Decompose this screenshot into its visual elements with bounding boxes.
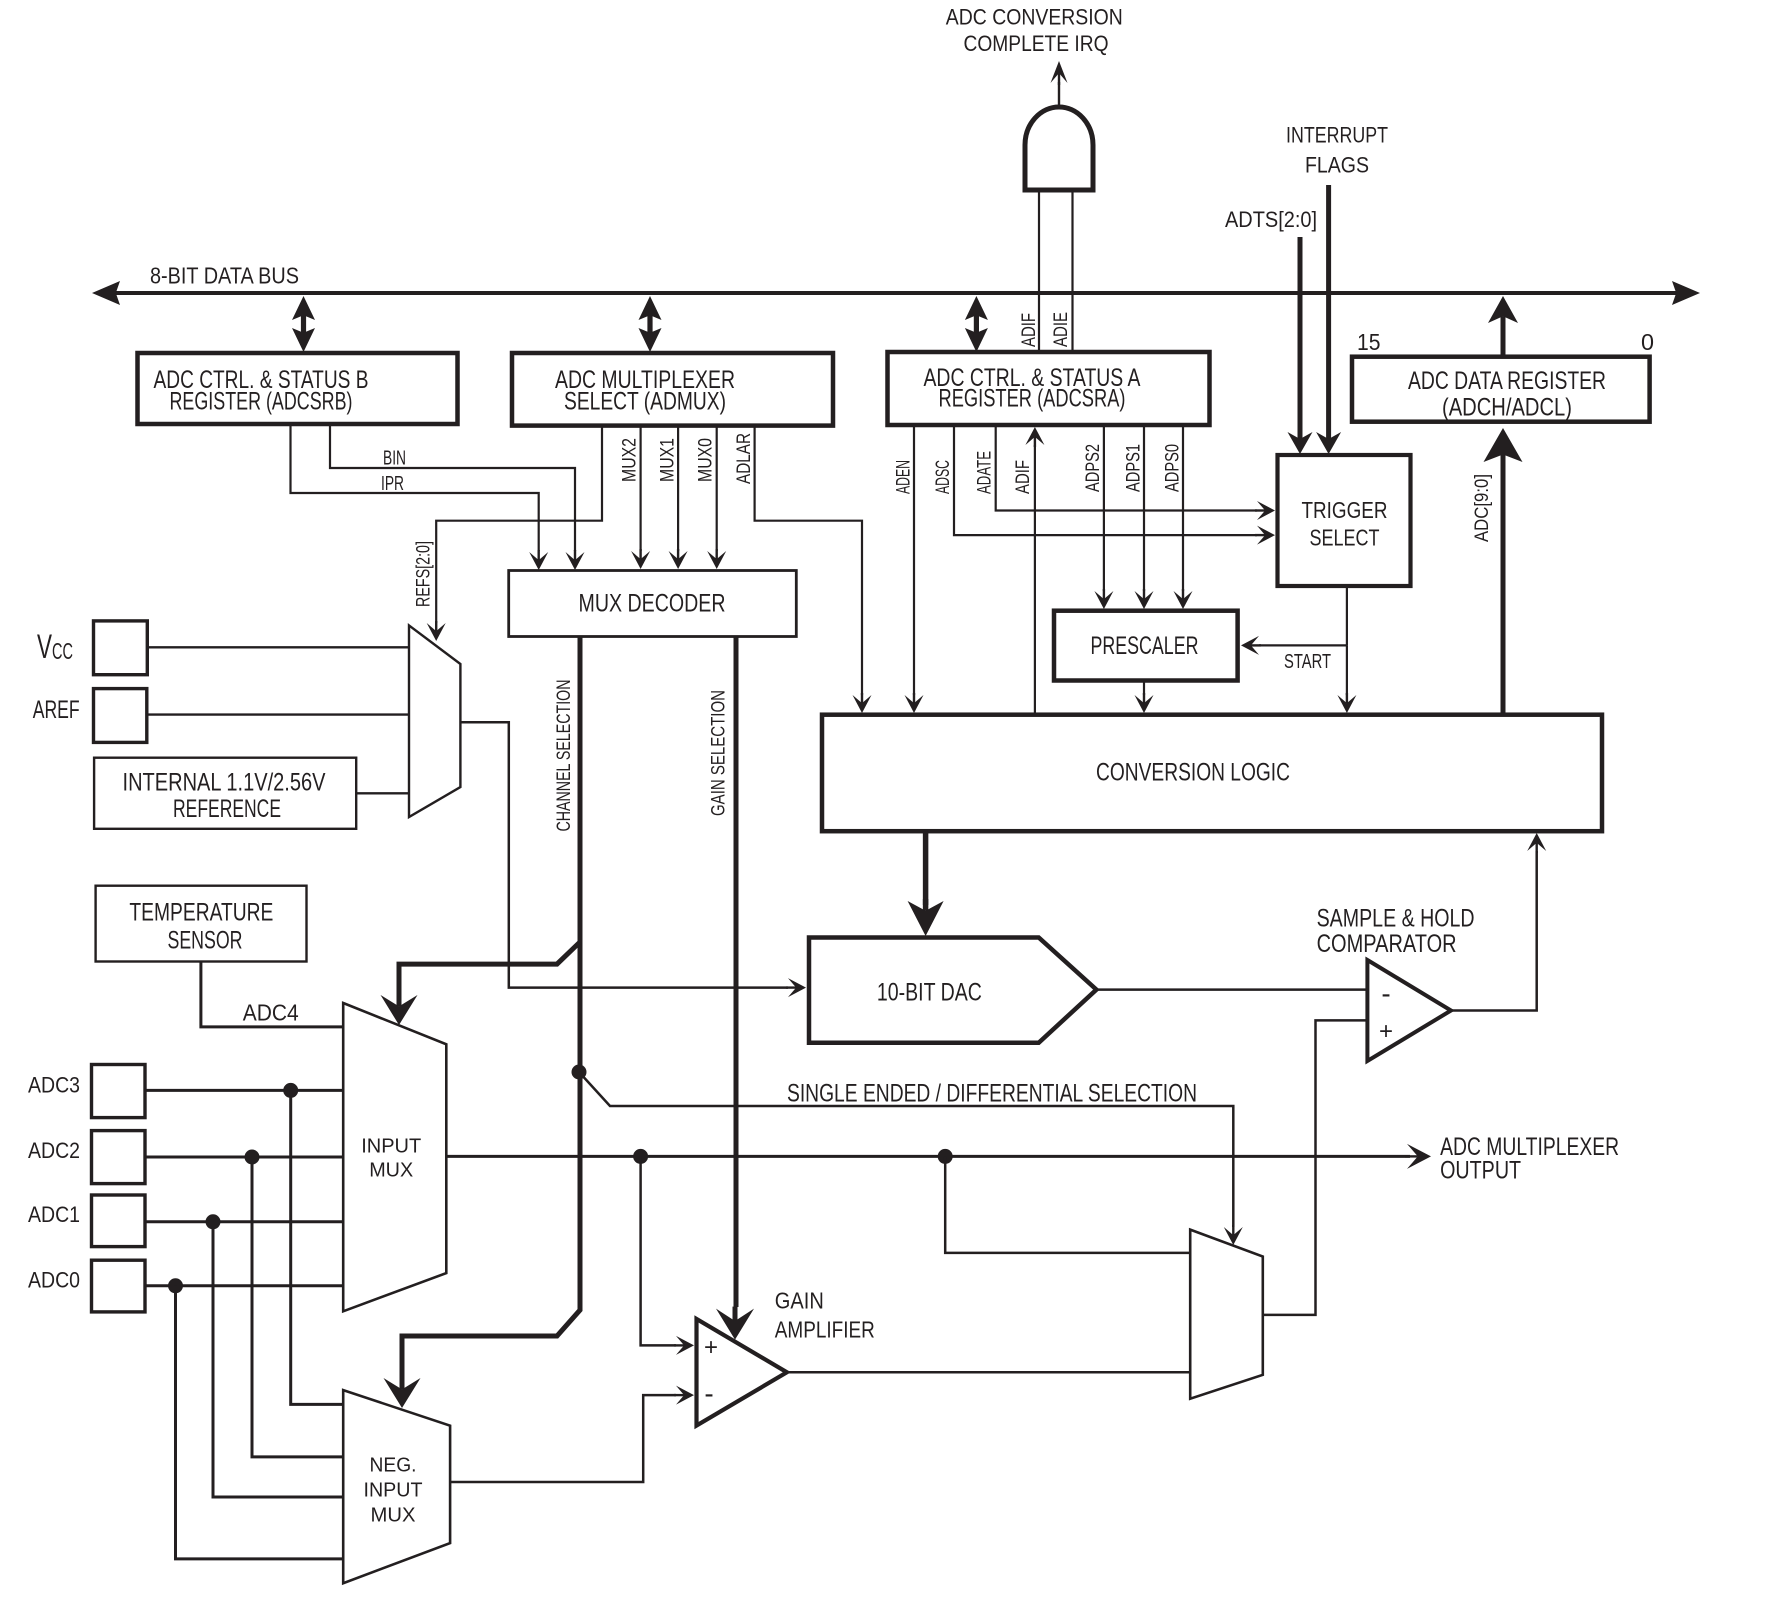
svg-text:COMPARATOR: COMPARATOR <box>1317 930 1457 958</box>
label ADSC <box>933 460 954 494</box>
wire ADC data register to bus <box>1488 296 1518 357</box>
wire gain selection <box>716 637 754 1340</box>
terminal ADC3 <box>92 1065 146 1118</box>
block ADCSRA register <box>888 352 1210 425</box>
label GAIN AMPLIFIER <box>775 1288 875 1343</box>
wire VCC to reference mux <box>147 646 409 648</box>
wire 8-bit data bus <box>92 281 1700 305</box>
wire ADATE <box>996 425 1275 520</box>
block ADMUX register <box>512 353 833 426</box>
svg-text:SELECT (ADMUX): SELECT (ADMUX) <box>564 388 726 416</box>
label comparator plus <box>1379 1018 1393 1045</box>
label ADPS1 <box>1124 444 1145 492</box>
svg-text:CC: CC <box>52 638 73 664</box>
svg-text:MUX DECODER: MUX DECODER <box>579 590 726 618</box>
wire ADSC <box>954 425 1275 545</box>
svg-text:ADC1: ADC1 <box>28 1202 80 1227</box>
svg-text:MUX: MUX <box>369 1160 413 1182</box>
mux positive input <box>343 1003 446 1311</box>
wire ADC0 to input mux <box>145 1284 343 1287</box>
svg-text:-: - <box>704 1378 713 1409</box>
svg-text:ADLAR: ADLAR <box>734 433 755 484</box>
wire ADEN <box>905 425 924 713</box>
wire ADC1 to input mux <box>145 1220 343 1223</box>
label VCC <box>37 628 73 666</box>
junction mux output to gain amp <box>633 1149 648 1164</box>
svg-text:ADC CONVERSION: ADC CONVERSION <box>946 4 1123 29</box>
junction mux output to diff mux <box>938 1149 953 1164</box>
block ADC data register <box>1352 357 1650 422</box>
svg-text:ADPS0: ADPS0 <box>1163 444 1184 492</box>
label INTERRUPT FLAGS <box>1286 122 1388 177</box>
wire to differential mux top input <box>945 1156 1190 1253</box>
wire ADPS1 <box>1135 425 1154 609</box>
svg-text:PRESCALER: PRESCALER <box>1091 632 1199 660</box>
svg-text:OUTPUT: OUTPUT <box>1440 1157 1521 1185</box>
svg-text:ADIF: ADIF <box>1013 460 1034 494</box>
label BIN <box>383 448 406 470</box>
label ADC[9:0] <box>1472 474 1493 542</box>
svg-text:ADC4: ADC4 <box>243 1000 299 1026</box>
svg-text:V: V <box>37 628 52 666</box>
wire ADIF to gate <box>1038 190 1040 352</box>
svg-text:INPUT: INPUT <box>364 1480 423 1502</box>
label GAIN SELECTION <box>709 690 730 816</box>
svg-text:COMPLETE IRQ: COMPLETE IRQ <box>964 31 1109 56</box>
label ADC3 <box>28 1073 80 1098</box>
label INPUT MUX <box>361 1136 421 1182</box>
wire IPR <box>291 424 549 570</box>
bus arrow ADMUX <box>639 296 662 352</box>
wire interrupt flags to trigger select <box>1316 185 1341 454</box>
svg-text:ADPS1: ADPS1 <box>1124 444 1145 492</box>
wire ADIE to gate <box>1071 190 1073 352</box>
svg-text:0: 0 <box>1641 329 1654 355</box>
label MUX2 <box>620 438 641 482</box>
terminal VCC <box>94 621 148 675</box>
and-gate U1 interrupt <box>1025 107 1093 190</box>
wire ADIF from conversion logic <box>1025 427 1044 715</box>
svg-text:BIN: BIN <box>383 448 406 470</box>
svg-text:START: START <box>1284 651 1331 673</box>
svg-text:-: - <box>1381 978 1390 1009</box>
wire gain amplifier output <box>787 1371 1190 1374</box>
svg-text:REGISTER (ADCSRB): REGISTER (ADCSRB) <box>170 388 353 416</box>
junction ADC0 <box>168 1278 183 1293</box>
label TEMPERATURE SENSOR <box>129 899 273 955</box>
wire ADC3 to neg mux <box>291 1090 344 1404</box>
svg-text:ADATE: ADATE <box>975 451 996 494</box>
label NEG. INPUT MUX <box>364 1455 423 1527</box>
svg-text:GAIN SELECTION: GAIN SELECTION <box>709 690 730 816</box>
label MUX1 <box>658 438 679 482</box>
terminal ADC0 <box>92 1260 146 1312</box>
block prescaler <box>1054 611 1238 681</box>
wire START <box>1241 587 1356 713</box>
op-amp sample and hold comparator <box>1367 960 1451 1061</box>
label ADPS2 <box>1083 444 1104 492</box>
svg-text:GAIN: GAIN <box>775 1288 824 1314</box>
label ADC DATA REGISTER <box>1408 367 1606 422</box>
block mux decoder <box>509 571 797 637</box>
label gain amp plus <box>704 1334 718 1361</box>
wire ADC0 to neg mux <box>176 1286 344 1559</box>
svg-text:ADC3: ADC3 <box>28 1073 80 1098</box>
wire ADC2 to neg mux <box>252 1157 343 1457</box>
label ADC0 <box>28 1267 80 1292</box>
junction ADC1 <box>206 1214 221 1229</box>
junction on channel selection <box>572 1065 587 1080</box>
wire ADC multiplexer output <box>446 1144 1431 1169</box>
wire comparator to conversion logic <box>1451 833 1546 1011</box>
svg-text:INPUT: INPUT <box>361 1136 421 1158</box>
wire conversion logic to DAC <box>908 831 944 936</box>
label ADIF <box>1019 313 1040 347</box>
label ADC1 <box>28 1202 80 1227</box>
wire IRQ output arrow <box>1051 61 1068 107</box>
mux reference select <box>409 625 460 817</box>
label PRESCALER <box>1091 632 1199 660</box>
svg-text:CONVERSION LOGIC: CONVERSION LOGIC <box>1096 759 1290 787</box>
wire reference mux to DAC <box>460 722 806 997</box>
svg-text:ADEN: ADEN <box>894 460 915 494</box>
wire mux output to comparator plus <box>1263 1020 1368 1315</box>
block conversion logic <box>822 715 1602 832</box>
wire prescaler to conversion logic <box>1135 681 1154 714</box>
svg-text:IPR: IPR <box>381 473 404 495</box>
wire MUX2 <box>631 426 650 569</box>
bus arrow ADCSRB <box>292 296 315 352</box>
wire ADTS[2:0] to trigger select <box>1288 237 1313 454</box>
svg-text:TRIGGER: TRIGGER <box>1302 497 1388 523</box>
svg-text:+: + <box>1379 1018 1393 1045</box>
block internal reference <box>94 758 356 829</box>
svg-text:INTERNAL 1.1V/2.56V: INTERNAL 1.1V/2.56V <box>123 769 326 797</box>
wire single ended selection <box>579 1072 1243 1245</box>
svg-text:8-BIT DATA BUS: 8-BIT DATA BUS <box>150 263 299 289</box>
label IPR <box>381 473 404 495</box>
label ADATE <box>975 451 996 494</box>
svg-text:INTERRUPT: INTERRUPT <box>1286 122 1388 147</box>
svg-text:ADSC: ADSC <box>933 460 954 494</box>
terminal ADC2 <box>92 1131 146 1184</box>
terminal ADC1 <box>92 1195 146 1247</box>
label ADCSRA <box>924 364 1141 413</box>
mux negative input <box>343 1390 450 1583</box>
label ADC MULTIPLEXER OUTPUT <box>1440 1133 1619 1185</box>
mux single-ended differential <box>1190 1230 1263 1399</box>
wire neg mux to gain amp minus <box>450 1386 694 1482</box>
svg-text:AMPLIFIER: AMPLIFIER <box>775 1317 875 1343</box>
svg-text:NEG.: NEG. <box>370 1455 417 1477</box>
junction ADC3 <box>283 1083 298 1098</box>
label AREF <box>33 696 80 724</box>
wire ADC3 to input mux <box>145 1089 343 1092</box>
label bit 15 <box>1357 329 1381 355</box>
label bit 0 <box>1641 329 1654 355</box>
svg-text:(ADCH/ADCL): (ADCH/ADCL) <box>1442 394 1572 422</box>
svg-text:MUX: MUX <box>371 1505 416 1527</box>
wire AREF to reference mux <box>147 713 409 715</box>
svg-text:ADC[9:0]: ADC[9:0] <box>1472 474 1493 542</box>
svg-text:TEMPERATURE: TEMPERATURE <box>129 899 273 927</box>
wire ADC4 <box>201 962 343 1027</box>
label SINGLE ENDED / DIFFERENTIAL SELECTION <box>787 1080 1197 1108</box>
label ADMUX <box>555 366 735 416</box>
svg-text:ADC2: ADC2 <box>28 1138 80 1163</box>
wire channel selection <box>381 637 581 1409</box>
svg-text:CHANNEL SELECTION: CHANNEL SELECTION <box>554 680 575 832</box>
svg-text:ADIE: ADIE <box>1051 312 1072 347</box>
label MUX0 <box>696 438 717 482</box>
wire ADC2 to input mux <box>145 1156 343 1159</box>
label ADCSRB <box>154 366 369 416</box>
junction ADC2 <box>245 1150 260 1165</box>
svg-text:MUX0: MUX0 <box>696 438 717 482</box>
svg-text:SINGLE ENDED / DIFFERENTIAL SE: SINGLE ENDED / DIFFERENTIAL SELECTION <box>787 1080 1197 1108</box>
svg-text:10-BIT DAC: 10-BIT DAC <box>877 979 982 1007</box>
label ADTS[2:0] <box>1225 207 1317 232</box>
label ADPS0 <box>1163 444 1184 492</box>
label ADC4 <box>243 1000 299 1026</box>
label CONVERSION LOGIC <box>1096 759 1290 787</box>
label START <box>1284 651 1331 673</box>
block temperature sensor <box>96 886 307 962</box>
wire BIN <box>330 424 585 570</box>
svg-text:ADPS2: ADPS2 <box>1083 444 1104 492</box>
svg-text:REGISTER (ADCSRA): REGISTER (ADCSRA) <box>939 385 1126 413</box>
svg-text:MUX2: MUX2 <box>620 438 641 482</box>
bus arrow ADCSRA <box>965 296 988 352</box>
wire ADC1 to neg mux <box>213 1222 343 1497</box>
label 10-BIT DAC <box>877 979 982 1007</box>
block ADCSRB register <box>138 353 458 424</box>
svg-text:15: 15 <box>1357 329 1381 355</box>
svg-text:AREF: AREF <box>33 696 80 724</box>
block 10-bit DAC <box>809 938 1096 1043</box>
label ADC CONVERSION COMPLETE IRQ <box>946 4 1123 56</box>
svg-text:ADC0: ADC0 <box>28 1267 80 1292</box>
wire ADC[9:0] <box>1484 428 1523 715</box>
svg-text:MUX1: MUX1 <box>658 438 679 482</box>
svg-text:ADIF: ADIF <box>1019 313 1040 347</box>
svg-text:ADTS[2:0]: ADTS[2:0] <box>1225 207 1317 232</box>
label ADIF flag <box>1013 460 1034 494</box>
svg-text:ADC DATA REGISTER: ADC DATA REGISTER <box>1408 367 1606 395</box>
svg-text:FLAGS: FLAGS <box>1305 153 1369 178</box>
wire REFS[2:0] <box>427 426 602 641</box>
label 8-BIT DATA BUS <box>150 263 299 289</box>
label TRIGGER SELECT <box>1302 497 1388 551</box>
label comparator minus <box>1381 978 1390 1009</box>
svg-text:REFS[2:0]: REFS[2:0] <box>414 541 435 607</box>
op-amp gain amplifier <box>697 1319 787 1426</box>
svg-text:SENSOR: SENSOR <box>168 927 243 955</box>
wire MUX1 <box>669 426 688 569</box>
label ADIE <box>1051 312 1072 347</box>
svg-text:SAMPLE & HOLD: SAMPLE & HOLD <box>1317 904 1475 932</box>
svg-text:REFERENCE: REFERENCE <box>173 795 281 823</box>
label ADLAR <box>734 433 755 484</box>
label ADC2 <box>28 1138 80 1163</box>
wire ADLAR <box>755 426 872 713</box>
label gain amp minus <box>704 1378 713 1409</box>
label ADEN <box>894 460 915 494</box>
label CHANNEL SELECTION <box>554 680 575 832</box>
terminal AREF <box>94 689 147 743</box>
wire ADPS0 <box>1174 425 1193 609</box>
wire to gain amplifier plus <box>641 1156 694 1355</box>
label SAMPLE &amp; HOLD COMPARATOR <box>1317 904 1475 958</box>
svg-text:+: + <box>704 1334 718 1361</box>
wire ADPS2 <box>1094 425 1113 609</box>
block trigger select <box>1278 455 1411 586</box>
label MUX DECODER <box>579 590 726 618</box>
svg-text:SELECT: SELECT <box>1310 525 1380 551</box>
wire MUX0 <box>707 426 726 569</box>
wire DAC to comparator minus <box>1096 988 1367 991</box>
label INTERNAL REFERENCE <box>123 769 326 824</box>
label REFS[2:0] <box>414 541 435 607</box>
wire internal reference to mux <box>356 792 409 794</box>
